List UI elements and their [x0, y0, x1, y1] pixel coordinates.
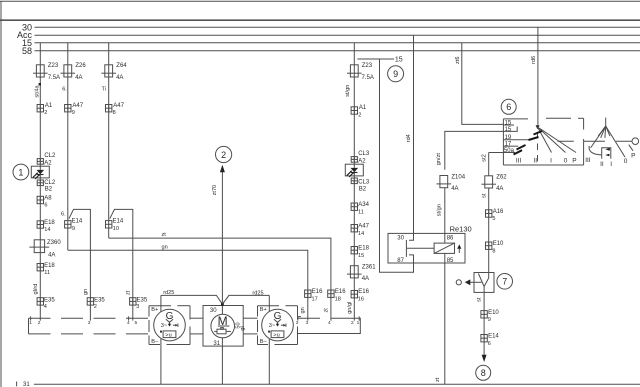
pressure switch component	[474, 273, 494, 293]
svg-text:9: 9	[393, 69, 398, 79]
fan motor G2 box	[258, 306, 298, 345]
svg-text:E18: E18	[358, 246, 369, 252]
wire column2 from bus15	[67, 43, 69, 221]
pin tick 3a right	[297, 316, 299, 320]
svg-text:E16: E16	[335, 289, 346, 295]
inner line right	[558, 140, 574, 142]
svg-text:Z23: Z23	[362, 63, 373, 69]
svg-text:6.: 6.	[61, 211, 66, 217]
svg-text:E16: E16	[358, 289, 369, 295]
svg-text:st: st	[481, 193, 487, 198]
svg-text:4A: 4A	[496, 186, 503, 192]
svg-text:A47: A47	[358, 224, 369, 230]
pin tick 1	[30, 316, 32, 320]
wire column1 from bus15	[39, 43, 41, 166]
svg-text:9: 9	[72, 110, 75, 116]
G1 regulator box	[163, 331, 176, 338]
assembly boundary dashed box left	[28, 318, 30, 334]
svg-text:Ti: Ti	[102, 87, 106, 93]
switch contact bar a	[534, 131, 543, 135]
svg-text:B–: B–	[151, 339, 159, 345]
svg-text:gn/gl: gn/gl	[347, 302, 353, 314]
wire 15stub down to relay87	[380, 59, 414, 272]
wire below E14/10	[108, 228, 110, 238]
svg-text:CL3: CL3	[358, 180, 370, 186]
svg-text:4: 4	[328, 320, 331, 326]
fuse Z23	[33, 65, 48, 77]
svg-text:zt: zt	[323, 308, 329, 313]
svg-text:A1: A1	[359, 105, 367, 111]
svg-text:E35: E35	[94, 298, 105, 304]
switch contact bar d	[514, 150, 523, 154]
svg-text:Z62: Z62	[496, 175, 507, 181]
frame second line	[0, 19, 640, 21]
ground bus 31	[34, 383, 640, 385]
svg-text:E14: E14	[488, 334, 499, 340]
svg-text:4A: 4A	[451, 186, 458, 192]
junction dot col1	[39, 83, 41, 85]
G1 circle	[154, 309, 186, 341]
svg-text:Z23: Z23	[48, 63, 59, 69]
svg-text:2: 2	[94, 304, 97, 310]
svg-text:zt: zt	[435, 377, 441, 382]
svg-text:87: 87	[397, 258, 404, 264]
connector A1 pin2 right	[351, 107, 357, 114]
svg-text:1: 1	[18, 167, 23, 177]
M circle	[221, 304, 223, 314]
boundary dashes between M and G2	[243, 317, 257, 319]
svg-text:4A: 4A	[362, 276, 369, 282]
svg-text:gn: gn	[83, 289, 89, 295]
wire gn horizontal	[68, 250, 308, 320]
svg-text:rd25: rd25	[163, 290, 174, 296]
svg-text:P: P	[631, 152, 635, 159]
svg-text:st2: st2	[482, 154, 488, 161]
M ground wire	[221, 338, 223, 384]
G1 fan glyph	[166, 319, 173, 322]
fan motor G1 box	[149, 306, 190, 345]
terminal 17 line	[503, 145, 518, 147]
switch blade E14/9	[69, 209, 91, 320]
connector E18 pin11	[37, 264, 43, 271]
svg-text:3~: 3~	[161, 323, 168, 329]
wire relay85 to ground	[444, 253, 446, 384]
G2 feed wire	[268, 295, 270, 311]
svg-text:5: 5	[135, 320, 138, 326]
svg-text:7.5A: 7.5A	[48, 75, 60, 81]
relay contact	[409, 233, 414, 240]
node 1 circled	[13, 164, 29, 180]
svg-text:58: 58	[22, 46, 32, 56]
wire col1 CL2 to E35	[39, 178, 41, 321]
svg-text:31: 31	[213, 341, 220, 347]
svg-text:0: 0	[564, 158, 568, 165]
svg-text:Z26: Z26	[75, 63, 86, 69]
connector CL2 A2	[37, 159, 43, 165]
svg-text:st/gn: st/gn	[436, 204, 442, 216]
M suppressor	[217, 329, 226, 334]
svg-text:19: 19	[505, 135, 512, 141]
key symbol	[602, 148, 611, 159]
svg-text:B+: B+	[151, 307, 158, 313]
svg-text:B+: B+	[260, 307, 267, 313]
svg-text:Z361: Z361	[362, 264, 376, 270]
node 2 circled	[216, 146, 232, 162]
svg-text:E10: E10	[493, 241, 504, 247]
svg-text:E35: E35	[137, 298, 148, 304]
junction dot	[221, 303, 224, 306]
svg-text:E18: E18	[44, 263, 55, 269]
fuse Z360	[34, 240, 44, 253]
svg-text:B2: B2	[359, 186, 367, 192]
node 8 circled	[476, 365, 491, 380]
fuse Z62	[481, 176, 496, 188]
svg-text:2: 2	[351, 320, 354, 326]
G2 ground wire	[268, 339, 270, 384]
svg-text:A47: A47	[113, 103, 124, 109]
svg-text:1: 1	[29, 320, 32, 326]
svg-text:31: 31	[23, 382, 30, 387]
switch blade E14/10	[110, 209, 133, 320]
svg-text:E16: E16	[312, 289, 323, 295]
fuse Z361	[347, 266, 362, 278]
svg-text:4A: 4A	[75, 75, 82, 81]
svg-text:B2: B2	[45, 187, 53, 193]
svg-text:10: 10	[113, 226, 119, 232]
svg-text:E18: E18	[44, 220, 55, 226]
node 6 circled	[501, 99, 516, 114]
arrow down to node 8	[482, 355, 487, 362]
pin tick 1 right	[358, 316, 360, 320]
svg-text:zt70: zt70	[212, 185, 218, 196]
connector CL3 B2	[351, 178, 357, 184]
switch fan lines	[538, 127, 552, 153]
wire zt horizontal	[109, 238, 331, 321]
svg-text:A47: A47	[72, 103, 83, 109]
terminal 15a line	[503, 124, 514, 126]
svg-text:rd25: rd25	[252, 290, 263, 296]
wire rd6 from bus30	[537, 27, 539, 125]
wire zt6 from bus15	[462, 43, 504, 125]
svg-text:E14: E14	[113, 218, 124, 224]
svg-text:A16: A16	[493, 209, 504, 215]
node 7 circled	[497, 274, 513, 290]
svg-text:1: 1	[357, 320, 360, 326]
svg-text:III: III	[516, 158, 522, 165]
svg-text:7: 7	[502, 277, 507, 287]
connector A47 pin9	[65, 105, 71, 112]
svg-text:14: 14	[358, 231, 364, 237]
connector A8 pin6	[37, 196, 43, 203]
wire zt70 up with arrow	[221, 172, 223, 305]
svg-text:8: 8	[492, 248, 495, 254]
motor M box	[203, 306, 243, 347]
switch pivot arrow	[536, 125, 540, 129]
svg-text:CL3: CL3	[358, 151, 370, 157]
G1 ground wire	[160, 339, 162, 384]
svg-text:4A: 4A	[48, 252, 55, 258]
node 9 circled	[388, 66, 404, 82]
frame left vertical	[0, 1, 2, 387]
svg-text:rd6: rd6	[531, 56, 537, 64]
key position diagram	[605, 118, 607, 126]
wire rd25 left	[161, 295, 223, 304]
svg-text:gl: gl	[240, 326, 246, 330]
svg-text:4A: 4A	[116, 75, 123, 81]
svg-text:3: 3	[88, 320, 91, 326]
svg-text:2: 2	[358, 113, 361, 119]
fuse Z64	[101, 65, 116, 77]
svg-text:st: st	[476, 297, 482, 302]
svg-text:6: 6	[488, 341, 491, 347]
svg-text:14: 14	[44, 227, 50, 233]
svg-text:86: 86	[447, 235, 454, 241]
connector E18 pin15	[351, 247, 357, 254]
svg-text:rd4: rd4	[406, 134, 412, 142]
diode CL2	[31, 166, 49, 178]
wire column3 from bus15	[108, 43, 110, 221]
svg-text:2: 2	[44, 110, 47, 116]
svg-text:st/4a: st/4a	[35, 84, 41, 97]
switch contact bar b	[529, 137, 539, 140]
svg-text:A8: A8	[44, 196, 52, 202]
svg-text:9: 9	[72, 226, 75, 232]
svg-text:17: 17	[505, 142, 512, 148]
svg-text:11: 11	[44, 270, 50, 276]
svg-text:CL2: CL2	[44, 153, 56, 159]
svg-text:Z360: Z360	[47, 240, 61, 246]
G2 right pin stub	[298, 316, 302, 318]
bus Acc	[35, 34, 640, 36]
svg-text:zt: zt	[162, 232, 167, 238]
connector E18 pin14	[37, 221, 43, 228]
connector E14 pin6	[481, 335, 487, 342]
svg-text:4: 4	[44, 304, 47, 310]
svg-text:gn: gn	[300, 307, 306, 313]
relay Re130 box	[388, 233, 465, 263]
svg-text:6.: 6.	[62, 87, 67, 93]
connector A47 pin14	[351, 225, 357, 232]
connector E35 pin3	[130, 298, 136, 305]
boundary solid right section	[298, 317, 321, 319]
wire to ignition 15b and Z104	[445, 131, 504, 169]
connector CL2 B2	[37, 180, 43, 186]
svg-text:4: 4	[127, 320, 130, 326]
svg-text:III: III	[585, 157, 591, 164]
G2 circle	[262, 309, 294, 341]
svg-text:gl/rd: gl/rd	[33, 284, 39, 295]
wire CL3 down to band	[353, 176, 355, 321]
frame top line	[0, 0, 640, 2]
svg-text:15: 15	[505, 121, 512, 127]
svg-text:B–: B–	[260, 339, 268, 345]
svg-text:>u: >u	[165, 332, 171, 338]
svg-text:0: 0	[624, 158, 628, 165]
fuse Z104	[437, 176, 452, 188]
switch E14 pin9	[65, 221, 71, 228]
connector E16 pin17	[305, 290, 311, 297]
wire Z62 down	[488, 188, 490, 273]
svg-text:18: 18	[335, 296, 341, 302]
wire column right from bus15	[353, 43, 355, 164]
svg-text:I: I	[550, 158, 552, 165]
connector A47 pin8	[106, 105, 112, 112]
wire below pressure switch	[483, 287, 485, 356]
ignition switch box	[503, 118, 528, 120]
terminal 19 line	[503, 139, 528, 141]
svg-text:3: 3	[306, 320, 309, 326]
svg-text:3: 3	[296, 320, 299, 326]
bus 30	[35, 26, 640, 28]
svg-text:16: 16	[358, 296, 364, 302]
bus 15	[35, 42, 640, 44]
svg-text:E10: E10	[488, 310, 499, 316]
connector E10 pin9	[481, 311, 487, 318]
connector E16 pin18	[328, 290, 334, 297]
svg-text:3~: 3~	[269, 323, 276, 329]
svg-text:3: 3	[136, 304, 139, 310]
svg-text:6: 6	[506, 102, 511, 112]
svg-text:P: P	[572, 158, 576, 165]
connector E16 pin16	[351, 291, 357, 298]
svg-text:A1: A1	[45, 103, 53, 109]
connector E35 pin2	[87, 298, 93, 305]
svg-text:30: 30	[397, 235, 404, 241]
svg-text:zt: zt	[125, 290, 131, 295]
svg-text:2: 2	[221, 150, 226, 160]
switch contact bar c	[517, 145, 526, 150]
wire Z104 to relay86	[444, 188, 446, 243]
svg-text:17: 17	[312, 296, 318, 302]
svg-text:9: 9	[488, 317, 491, 323]
svg-text:gn/zt: gn/zt	[436, 153, 442, 166]
G2 fan glyph	[274, 319, 281, 322]
svg-text:11: 11	[358, 209, 364, 215]
svg-text:50a: 50a	[504, 148, 515, 154]
svg-text:>u: >u	[273, 332, 279, 338]
svg-text:gn: gn	[162, 244, 168, 250]
wire below E14/9	[67, 228, 69, 250]
svg-text:CL2: CL2	[44, 180, 56, 186]
svg-text:I: I	[610, 161, 612, 168]
svg-text:zt6: zt6	[455, 57, 461, 64]
relay coil	[434, 243, 454, 253]
terminal 50a line	[489, 152, 515, 154]
pin tick 4	[128, 316, 130, 320]
svg-text:E35: E35	[44, 298, 55, 304]
G1 feed wire	[160, 295, 162, 311]
svg-text:8: 8	[481, 368, 486, 378]
svg-text:2: 2	[38, 320, 41, 326]
svg-text:II: II	[600, 161, 604, 168]
wire rd4 from Acc to relay30	[413, 35, 415, 233]
connector A1 pin2	[37, 105, 43, 112]
diode CL3	[345, 164, 363, 176]
svg-text:II: II	[533, 158, 537, 165]
svg-text:Re130: Re130	[450, 224, 472, 233]
fuse Z23 right	[347, 65, 362, 77]
svg-text:15: 15	[505, 127, 512, 133]
svg-text:A34: A34	[358, 202, 369, 208]
svg-text:E14: E14	[72, 218, 83, 224]
svg-text:7.5A: 7.5A	[362, 75, 374, 81]
bus 58	[35, 50, 640, 52]
connector A34 pin11	[351, 203, 357, 210]
svg-text:st/gn: st/gn	[345, 85, 351, 97]
fuse Z26	[61, 65, 76, 77]
G2 regulator box	[271, 331, 284, 338]
svg-text:85: 85	[447, 258, 454, 264]
wire rd25 right	[222, 295, 269, 304]
boundary dashes between G1 and M	[190, 317, 204, 319]
connector A16 pin5	[486, 210, 492, 217]
connector E35 pin4	[37, 298, 43, 305]
svg-text:Z104: Z104	[451, 174, 465, 180]
svg-text:30: 30	[210, 308, 217, 314]
svg-text:Z64: Z64	[116, 63, 127, 69]
terminal 15b line	[503, 127, 517, 132]
connector E10 pin8	[486, 242, 492, 249]
switch E14 pin10	[106, 221, 112, 228]
svg-text:5: 5	[492, 216, 495, 222]
net stub 15	[357, 58, 394, 60]
svg-text:6: 6	[44, 202, 47, 208]
svg-text:15: 15	[395, 57, 403, 64]
svg-text:15: 15	[358, 253, 364, 259]
svg-text:8: 8	[113, 110, 116, 116]
wire st2 from 50a to Z62	[488, 153, 490, 176]
connector CL3 A2	[351, 157, 357, 163]
